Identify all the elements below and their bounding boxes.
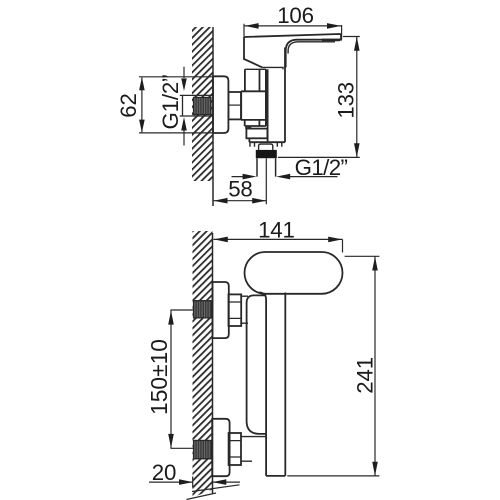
20 — [149, 477, 240, 488]
svg-text:62: 62 — [116, 93, 141, 117]
arrows 150+-10 — [168, 311, 174, 325]
ring under handle — [245, 67, 283, 69]
dimensions top view — [139, 24, 360, 205]
top connection — [194, 301, 213, 318]
arrows 58 — [214, 198, 228, 204]
hex nut — [228, 92, 241, 119]
nipple G1/2 — [180, 95, 213, 116]
svg-text:133: 133 — [334, 82, 359, 119]
G1/2 bottom — [232, 176, 338, 178]
133 — [278, 37, 360, 158]
arrows G1/2 left (pointing inward, vertical) — [181, 78, 187, 91]
svg-text:G1/2”: G1/2” — [295, 155, 348, 180]
outlet pipe — [257, 158, 276, 176]
arrows 20 (outside) — [179, 479, 193, 485]
bottom connection — [194, 441, 213, 459]
arrows 141 — [214, 237, 228, 243]
black band — [256, 150, 277, 158]
svg-text:58: 58 — [228, 177, 252, 202]
arrows 62 — [139, 77, 145, 90]
svg-text:G1/2”: G1/2” — [158, 75, 183, 130]
thread — [194, 97, 212, 114]
svg-text:20: 20 — [152, 460, 176, 485]
valve plate — [247, 295, 267, 434]
106 — [244, 24, 342, 40]
58 — [213, 158, 266, 204]
241 — [287, 256, 379, 476]
150+-10 — [170, 310, 193, 448]
arrows 106 — [245, 23, 259, 29]
wall — [193, 231, 213, 498]
dimensions bottom view — [149, 239, 379, 499]
handle hub — [244, 37, 262, 67]
G1/2 left — [183, 67, 185, 146]
arrows 133 — [354, 37, 360, 51]
svg-text:150±10: 150±10 — [146, 339, 172, 415]
aerator tabs — [250, 142, 282, 147]
outlet — [246, 129, 267, 139]
handle lever — [244, 34, 341, 67]
svg-text:141: 141 — [258, 217, 295, 242]
body — [245, 48, 285, 143]
svg-text:241: 241 — [353, 357, 378, 394]
wall face line — [212, 27, 214, 206]
wall — [192, 27, 213, 181]
column — [259, 292, 285, 476]
svg-text:106: 106 — [277, 3, 314, 28]
arrows 241 — [372, 257, 378, 271]
capsule head — [245, 252, 343, 294]
141 — [214, 239, 343, 252]
escutcheon flange — [213, 76, 228, 133]
62 — [139, 77, 213, 133]
arrows G1/2 bottom — [243, 174, 257, 180]
gap band — [246, 128, 268, 130]
